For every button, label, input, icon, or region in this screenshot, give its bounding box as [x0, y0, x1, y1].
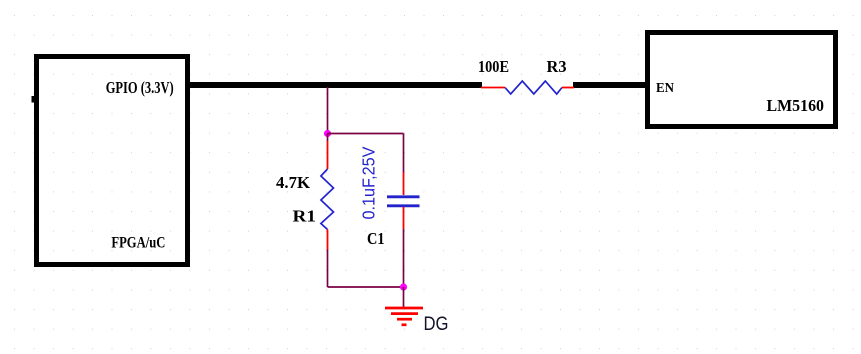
resistor R1 pin top (red): [327, 141, 329, 169]
svg-text:LM5160: LM5160: [767, 96, 825, 115]
capacitor C1 top plate: [387, 195, 420, 198]
ground DG symbol: [385, 308, 423, 325]
resistor R3 pin left (red): [481, 87, 505, 89]
svg-text:4.7K: 4.7K: [276, 173, 311, 192]
resistor R3 body: [505, 81, 562, 94]
wire: bottom rail R1 to C1: [328, 286, 404, 288]
resistor R1 body: [321, 169, 334, 230]
wire: junction to capacitor branch (horizontal): [328, 133, 404, 135]
capacitor C1 pin bottom (red): [403, 207, 405, 229]
svg-text:GPIO (3.3V): GPIO (3.3V): [106, 78, 174, 97]
capacitor C1 bottom plate: [387, 204, 420, 207]
svg-text:R3: R3: [547, 57, 567, 76]
wire: C1 to bottom rail: [403, 229, 405, 287]
svg-text:100E: 100E: [478, 57, 509, 76]
wire GPIO to R3 (thick): [188, 82, 482, 88]
wire: junction down to R1: [327, 134, 329, 142]
pin stub on left of FPGA box: [32, 96, 35, 103]
node junction A (dot): [324, 130, 331, 137]
svg-text:FPGA/uC: FPGA/uC: [111, 235, 165, 252]
block U1 LM5160: [648, 33, 836, 127]
block U2 FPGA/uC: [37, 57, 188, 265]
node junction B (dot): [400, 283, 407, 290]
wire R3 to EN (thick): [573, 82, 647, 88]
resistor R1 pin bottom (red): [327, 230, 329, 251]
svg-text:DG: DG: [424, 313, 449, 335]
svg-text:0.1uF,25V: 0.1uF,25V: [359, 146, 379, 219]
wire: junction to ground: [403, 287, 405, 307]
svg-text:R1: R1: [293, 207, 317, 226]
wire: R1 to bottom rail: [327, 250, 329, 288]
svg-text:C1: C1: [367, 229, 385, 248]
wire: vertical drop from GPIO net: [327, 87, 329, 133]
resistor R3 pin right (red): [562, 87, 574, 89]
capacitor C1 pin top (red): [403, 172, 405, 195]
svg-text:EN: EN: [656, 81, 674, 96]
wire: down to capacitor C1: [403, 134, 405, 173]
